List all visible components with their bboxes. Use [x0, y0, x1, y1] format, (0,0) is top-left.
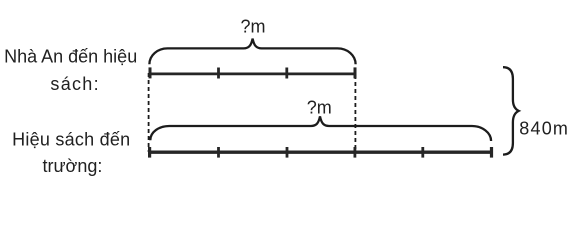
- svg-text:trường:: trường:: [43, 156, 103, 176]
- svg-text:?m: ?m: [307, 97, 332, 117]
- dashed guide line right: [354, 75, 356, 152]
- svg-text:840m: 840m: [519, 119, 569, 139]
- bar 1 tick 1: [217, 68, 220, 79]
- svg-text:sách:: sách:: [50, 74, 100, 94]
- svg-text:?m: ?m: [240, 17, 265, 37]
- bar 2 tick 3: [353, 147, 356, 158]
- bar 2 right end cap: [490, 147, 493, 158]
- bar 1 line: [149, 72, 357, 75]
- top brace over first bar: [149, 39, 355, 65]
- right curly brace for 840m total: [503, 67, 519, 154]
- bar 2 tick 2: [286, 147, 289, 158]
- bar 2 tick 1: [217, 147, 220, 158]
- svg-text:Hiệu sách đến: Hiệu sách đến: [12, 129, 130, 149]
- bar 2 tick 4: [421, 147, 424, 158]
- bar 2 left end cap: [148, 147, 151, 158]
- second bar (5 units): [148, 147, 493, 158]
- bar 1 right end cap: [354, 67, 357, 78]
- bar 1 left end cap: [149, 67, 152, 78]
- bar 1 tick 2: [285, 68, 288, 79]
- dashed guide line left: [148, 73, 150, 152]
- svg-text:Nhà An đến hiệu: Nhà An đến hiệu: [4, 46, 137, 66]
- first bar (3 units): [149, 67, 357, 78]
- bottom brace over second bar: [150, 116, 491, 141]
- bar 2 line: [148, 150, 493, 153]
